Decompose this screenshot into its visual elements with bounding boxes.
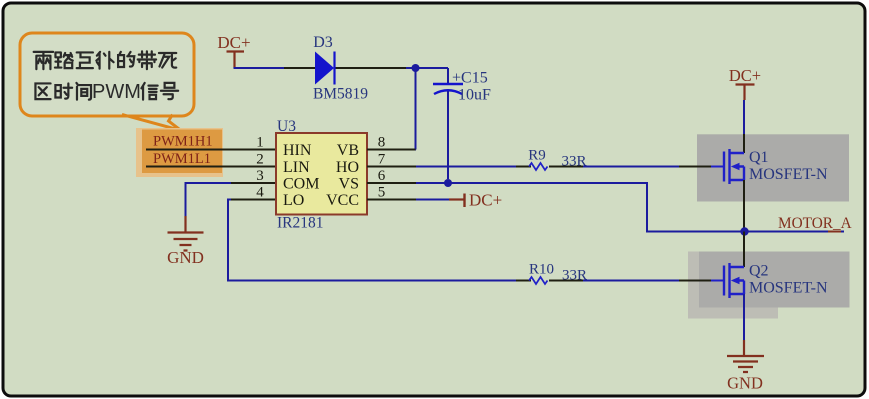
svg-text:MOSFET-N: MOSFET-N — [749, 280, 828, 297]
pin number 2 — [256, 152, 264, 168]
svg-text:PWM1L1: PWM1L1 — [153, 151, 211, 167]
transistor Q1 symbol — [724, 149, 744, 184]
svg-text:R9: R9 — [528, 148, 546, 164]
transistor Q2 type MOSFET-N — [749, 280, 828, 297]
svg-text:VCC: VCC — [326, 192, 359, 209]
transistor Q2 gate pin — [679, 280, 724, 282]
pin number 3 — [256, 168, 264, 184]
svg-text:Q2: Q2 — [749, 263, 769, 280]
svg-text:DC+: DC+ — [469, 191, 502, 210]
transistor Q1 designator — [749, 149, 769, 166]
junction node VB — [412, 64, 420, 72]
svg-text:HIN: HIN — [283, 142, 312, 159]
pin name VS — [339, 176, 359, 193]
svg-text:GND: GND — [167, 248, 204, 267]
svg-text:Q1: Q1 — [749, 149, 769, 166]
svg-text:LO: LO — [283, 192, 304, 209]
ground symbol GND (right) — [727, 340, 764, 372]
pin 4 lead — [231, 199, 276, 201]
svg-text:COM: COM — [283, 176, 319, 193]
svg-text:HO: HO — [336, 159, 359, 176]
pin name LIN — [283, 159, 310, 176]
capacitor C15 value 10uF — [458, 87, 491, 104]
svg-text:MOTOR_A: MOTOR_A — [778, 215, 852, 232]
pin number 5 — [378, 185, 386, 201]
wire R10 to Q2 gate — [583, 280, 679, 282]
resistor R10 symbol — [529, 277, 548, 284]
pin name VB — [337, 142, 359, 159]
pin number 1 — [256, 135, 264, 151]
pin name HIN — [283, 142, 312, 159]
svg-text:U3: U3 — [277, 118, 296, 135]
svg-text:5: 5 — [378, 185, 386, 201]
svg-text:3: 3 — [256, 168, 264, 184]
svg-text:DC+: DC+ — [217, 33, 250, 52]
svg-text:VB: VB — [337, 142, 359, 159]
pin name HO — [336, 159, 359, 176]
callout text line1: 两路互补的带死 — [34, 51, 177, 69]
svg-text:1: 1 — [256, 135, 264, 151]
wire D3 cathode to junction — [406, 67, 448, 69]
wire Q2 source to ground — [743, 294, 745, 340]
wire junction down to pin8 VB — [415, 68, 418, 150]
net label highlight PWM block — [136, 128, 223, 177]
resistor R9 value 33R — [561, 154, 586, 170]
transistor Q1 source pin to MOTOR node — [743, 180, 745, 232]
pin 3 lead — [231, 182, 276, 184]
wire COM pin3 to ground — [186, 183, 232, 218]
wire DC+ to D3 anode — [235, 67, 285, 68]
svg-text:IR2181: IR2181 — [277, 215, 324, 232]
svg-text:GND: GND — [727, 374, 763, 393]
net label MOTOR_A — [778, 215, 852, 232]
wire pin7 HO to R9 — [416, 166, 516, 168]
transistor Q1 drain pin — [743, 134, 745, 153]
svg-text:PWM: PWM — [92, 81, 141, 103]
wire R9 to Q1 gate — [583, 166, 679, 168]
pin 5 lead — [367, 199, 416, 201]
IC U3 designator — [277, 118, 296, 135]
svg-text:8: 8 — [378, 135, 386, 151]
wire PWM1L1 to pin2 LIN — [146, 166, 276, 168]
pin number 7 — [378, 152, 386, 168]
junction node MOTOR_A — [740, 227, 748, 235]
diode D3 designator — [313, 34, 333, 51]
callout tail — [122, 115, 181, 131]
svg-text:10uF: 10uF — [458, 87, 491, 104]
net label PWM1H1 — [153, 134, 213, 150]
transistor Q2 highlight box — [688, 252, 850, 319]
resistor R10 leads — [516, 280, 583, 282]
resistor R10 value 33R — [562, 268, 587, 284]
diode D3 pin leads — [284, 67, 406, 69]
pin 8 lead — [367, 149, 416, 151]
diode D3 symbol — [315, 52, 335, 85]
svg-text:2: 2 — [256, 152, 264, 168]
callout text line2: 区时间PWM信号 — [35, 83, 178, 100]
diode D3 value BM5819 — [313, 86, 368, 103]
wire DC+ to Q1 drain — [743, 100, 745, 134]
transistor Q1 type MOSFET-N — [749, 166, 828, 183]
svg-text:R10: R10 — [529, 262, 554, 278]
wire pin5 VCC to DC+ — [416, 199, 449, 201]
capacitor C15 polarity + designator — [452, 70, 488, 87]
resistor R9 symbol — [529, 163, 548, 170]
svg-text:DC+: DC+ — [729, 66, 761, 85]
ground label GND (right) — [727, 374, 763, 393]
svg-text:+C15: +C15 — [452, 70, 488, 87]
transistor Q2 designator — [749, 263, 769, 280]
power port DC+ (left) — [217, 33, 250, 68]
pin 7 lead — [367, 166, 416, 168]
transistor Q1 gate pin — [679, 166, 724, 168]
svg-text:7: 7 — [378, 152, 386, 168]
ground label GND (left) — [167, 248, 204, 267]
transistor Q1 highlight box — [697, 134, 849, 201]
callout text PWM — [92, 81, 141, 103]
resistor R9 designator — [528, 148, 546, 164]
power port DC+ (pin5) — [449, 191, 502, 210]
resistor R9 leads — [516, 166, 583, 168]
capacitor C15 symbol — [433, 84, 463, 179]
pin name LO — [283, 192, 304, 209]
svg-text:VS: VS — [339, 176, 359, 193]
svg-text:MOSFET-N: MOSFET-N — [749, 166, 828, 183]
wire MOTOR node to Q2 drain — [743, 232, 745, 252]
wire pin6 VS to MOTOR_A — [416, 183, 844, 232]
wire PWM1H1 to pin1 HIN — [146, 149, 276, 151]
pin 6 lead — [367, 182, 416, 184]
pin number 4 — [256, 185, 264, 201]
power port DC+ (top right) — [729, 66, 761, 100]
svg-text:6: 6 — [378, 168, 386, 184]
svg-text:PWM1H1: PWM1H1 — [153, 134, 213, 150]
junction node VS / C15 — [444, 179, 452, 187]
transistor Q2 body arrow — [731, 277, 740, 284]
svg-text:D3: D3 — [313, 34, 333, 51]
pin number 8 — [378, 135, 386, 151]
transistor Q1 body arrow — [731, 163, 740, 170]
net label PWM1L1 — [153, 151, 211, 167]
svg-text:BM5819: BM5819 — [313, 86, 368, 103]
pin name COM — [283, 176, 319, 193]
transistor Q2 symbol — [724, 263, 744, 298]
callout bubble border — [20, 33, 194, 116]
pin name VCC — [326, 192, 359, 209]
svg-text:LIN: LIN — [283, 159, 310, 176]
transistor Q2 drain pin — [743, 251, 745, 267]
svg-text:33R: 33R — [561, 154, 586, 170]
resistor R10 designator — [529, 262, 554, 278]
IC U3 part number IR2181 — [277, 215, 324, 232]
pin number 6 — [378, 168, 386, 184]
op-amp/IC U3 body — [276, 133, 367, 215]
svg-text:4: 4 — [256, 185, 264, 201]
ground symbol GND (left) — [168, 216, 204, 251]
wire junction to C15 top — [447, 68, 449, 84]
wire LO pin4 down and right to R10 — [228, 200, 516, 281]
